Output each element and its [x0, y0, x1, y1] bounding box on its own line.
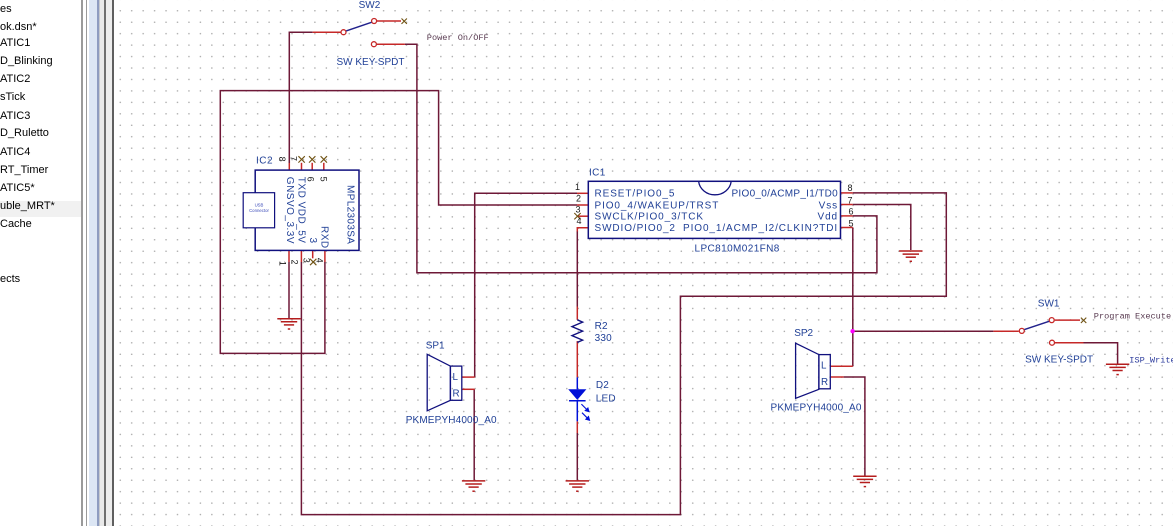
svg-text:Vdd: Vdd [818, 212, 839, 223]
svg-text:6: 6 [849, 207, 854, 217]
svg-text:D2: D2 [596, 380, 609, 391]
svg-text:1: 1 [575, 182, 580, 192]
svg-text:SWCLK/PIO0_3/TCK: SWCLK/PIO0_3/TCK [595, 212, 704, 223]
svg-text:RXD: RXD [319, 226, 330, 249]
svg-text:8: 8 [277, 157, 287, 162]
svg-text:SP2: SP2 [794, 328, 813, 339]
svg-text:3: 3 [302, 258, 312, 263]
svg-text:SP1: SP1 [426, 340, 445, 351]
svg-text:IC2: IC2 [256, 156, 273, 167]
svg-text:TXD VDD_5V: TXD VDD_5V [296, 177, 307, 244]
svg-text:4: 4 [314, 258, 324, 263]
svg-text:SWDIO/PIO0_2: SWDIO/PIO0_2 [595, 223, 676, 234]
svg-text:GNSVO_3.3V: GNSVO_3.3V [284, 177, 295, 244]
svg-text:5: 5 [849, 219, 854, 229]
svg-text:R2: R2 [595, 321, 608, 332]
svg-text:RESET/PIO0_5: RESET/PIO0_5 [595, 189, 676, 200]
svg-text:R: R [453, 388, 460, 399]
svg-text:4: 4 [576, 216, 581, 226]
svg-text:ISP_Write: ISP_Write [1129, 355, 1173, 365]
svg-text:6: 6 [306, 177, 316, 182]
svg-text:SW2: SW2 [359, 0, 381, 11]
svg-text:R: R [821, 377, 828, 388]
svg-text:7: 7 [289, 156, 299, 161]
svg-text:SW KEY-SPDT: SW KEY-SPDT [1025, 355, 1093, 366]
svg-text:LPC810M021FN8: LPC810M021FN8 [695, 244, 780, 255]
svg-text:LED: LED [596, 393, 616, 404]
svg-text:7: 7 [848, 195, 853, 205]
svg-text:8: 8 [848, 183, 853, 193]
svg-text:PKMEPYH4000_A0: PKMEPYH4000_A0 [771, 402, 862, 413]
svg-text:3: 3 [307, 238, 318, 244]
svg-text:L: L [453, 372, 459, 383]
svg-text:PIO0_1/ACMP_I2/CLKIN?TDI: PIO0_1/ACMP_I2/CLKIN?TDI [683, 223, 838, 234]
svg-text:PIO0_0/ACMP_I1/TD0: PIO0_0/ACMP_I1/TD0 [731, 189, 838, 200]
svg-text:Program Execute: Program Execute [1094, 311, 1171, 321]
svg-text:PIO0_4/WAKEUP/TRST: PIO0_4/WAKEUP/TRST [595, 200, 720, 211]
svg-text:2: 2 [576, 193, 581, 203]
svg-text:L: L [821, 361, 827, 372]
svg-text:5: 5 [319, 177, 329, 182]
svg-text:SW1: SW1 [1038, 299, 1060, 310]
svg-text:1: 1 [277, 261, 287, 266]
svg-text:2: 2 [289, 260, 299, 265]
svg-text:Power On/OFF: Power On/OFF [427, 33, 489, 43]
svg-text:PKMEPYH4000_A0: PKMEPYH4000_A0 [406, 415, 497, 426]
svg-text:SW KEY-SPDT: SW KEY-SPDT [337, 57, 405, 68]
svg-text:Vss: Vss [819, 200, 838, 211]
svg-text:3: 3 [575, 205, 580, 215]
svg-text:IC1: IC1 [589, 167, 606, 178]
svg-text:Connector: Connector [249, 208, 269, 213]
svg-text:MPL2303SA: MPL2303SA [345, 185, 356, 244]
svg-text:330: 330 [595, 333, 613, 344]
